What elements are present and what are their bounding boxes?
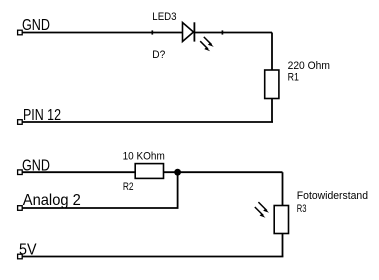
resistor R1 body: [265, 70, 279, 99]
LED D? triangle: [183, 23, 194, 42]
junction dot node: [174, 169, 181, 176]
svg-text:Analog 2: Analog 2: [23, 192, 81, 209]
svg-text:220 Ohm: 220 Ohm: [288, 60, 330, 72]
wire R2 to R3: [164, 171, 283, 173]
LED light arrow 2: [200, 41, 210, 51]
svg-text:Fotowiderstand: Fotowiderstand: [297, 190, 368, 202]
pin tick LED cathode: [221, 30, 223, 34]
terminal square 5V: [18, 254, 23, 259]
svg-text:10 KOhm: 10 KOhm: [123, 151, 165, 163]
wire junction down to Analog 2 line: [177, 172, 179, 208]
wire corner down to R1: [271, 33, 273, 71]
wire 5V: [20, 256, 283, 258]
wire GND to LED anode: [20, 32, 183, 34]
wire LED cathode to corner: [194, 32, 272, 34]
svg-text:R1: R1: [288, 72, 299, 84]
svg-text:R3: R3: [297, 203, 307, 215]
wire GND to R2: [20, 171, 135, 173]
R3 light arrow 2: [255, 207, 266, 218]
svg-text:R2: R2: [123, 181, 134, 193]
LED light arrow 1: [204, 37, 214, 47]
svg-text:LED3: LED3: [152, 11, 176, 23]
pin tick LED anode: [151, 30, 153, 34]
wire R3 to 5V line: [282, 234, 284, 257]
LED cathode bar: [193, 22, 195, 41]
wire corner down to R3: [282, 172, 284, 205]
wire R1 to PIN 12 line: [271, 99, 273, 123]
terminal square Analog 2: [18, 206, 23, 211]
terminal square GND (bottom): [18, 170, 23, 175]
svg-text:GND: GND: [22, 17, 50, 34]
terminal square GND (top): [18, 30, 23, 35]
svg-text:D?: D?: [152, 49, 165, 61]
R3 light arrow 1: [258, 202, 269, 213]
wire Analog 2: [20, 207, 179, 209]
photoresistor R3 body: [274, 206, 288, 234]
wire PIN 12: [20, 121, 273, 123]
resistor R2 body: [135, 164, 163, 179]
terminal square PIN 12: [18, 120, 23, 125]
